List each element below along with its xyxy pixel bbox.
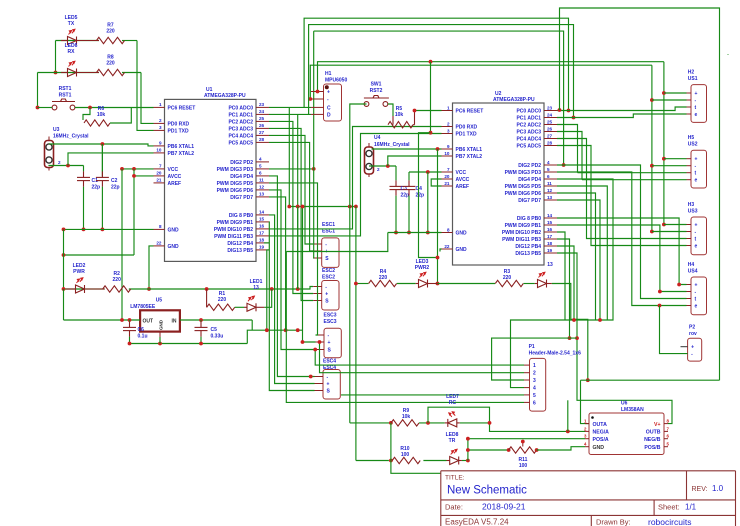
wire plus branch H3 xyxy=(664,224,687,226)
svg-text:DIG 8 PB0: DIG 8 PB0 xyxy=(517,216,541,222)
wire SW1 to R5 xyxy=(388,104,393,116)
wire U5 OUT rail xyxy=(64,319,141,321)
svg-text:23: 23 xyxy=(259,102,265,107)
junction xyxy=(301,340,305,344)
wire rail LED2 xyxy=(64,288,105,290)
wire plus bus vertical xyxy=(663,62,665,225)
svg-text:2: 2 xyxy=(447,121,450,126)
svg-text:+: + xyxy=(327,90,330,96)
wire U1 pin23 row to H1 C xyxy=(269,106,311,108)
wire LED3 to R3 xyxy=(438,283,496,285)
title block xyxy=(441,471,736,526)
junction xyxy=(308,97,312,101)
svg-text:+: + xyxy=(695,223,698,229)
svg-text:4: 4 xyxy=(259,157,262,162)
wire U2 pin28 to H3 e xyxy=(557,146,687,246)
svg-text:DIG12 PB4: DIG12 PB4 xyxy=(227,241,253,247)
wire H5 t xyxy=(578,172,687,174)
wire RST1 to U1 pin1 xyxy=(75,107,154,109)
wire U2 pin24 to H2 e xyxy=(557,114,687,118)
connector H5 US2 xyxy=(691,150,707,188)
connector H3 US3 xyxy=(691,217,707,255)
svg-text:17: 17 xyxy=(259,231,265,236)
svg-text:US2: US2 xyxy=(688,142,698,148)
svg-text:PWM DIG10 PB2: PWM DIG10 PB2 xyxy=(214,227,253,233)
svg-text:PWM DIG3 PD3: PWM DIG3 PD3 xyxy=(505,170,542,176)
svg-text:PD1 TXD: PD1 TXD xyxy=(168,128,190,134)
junction xyxy=(82,228,86,232)
svg-text:AVCC: AVCC xyxy=(456,177,470,183)
svg-text:ESC1: ESC1 xyxy=(322,222,335,228)
svg-text:RST1: RST1 xyxy=(59,93,72,99)
svg-text:Sheet:: Sheet: xyxy=(658,503,680,512)
junction xyxy=(436,282,440,286)
R11 top stub xyxy=(522,442,524,447)
wire minus branch xyxy=(652,165,687,167)
wire U1 pin15 to ESC4 S xyxy=(269,222,315,391)
svg-text:14: 14 xyxy=(259,210,265,215)
svg-text:AVCC: AVCC xyxy=(168,174,182,180)
svg-text:ESC3: ESC3 xyxy=(324,313,337,319)
svg-text:DIG12 PB4: DIG12 PB4 xyxy=(515,244,541,250)
svg-text:Date:: Date: xyxy=(445,503,463,512)
wire to U6 OUTA xyxy=(581,380,590,423)
connector P2 xyxy=(688,338,702,361)
svg-text:PWM DIG9 PB1: PWM DIG9 PB1 xyxy=(505,223,542,229)
svg-text:PC5 ADC5: PC5 ADC5 xyxy=(228,140,253,146)
wire crystal pin2 net xyxy=(49,165,84,168)
svg-text:PWR2: PWR2 xyxy=(415,265,430,271)
wire minus branch H3 xyxy=(652,231,687,233)
wire minus branch xyxy=(652,99,687,101)
junction xyxy=(650,230,654,234)
wire R3 to LED4 xyxy=(524,283,535,285)
svg-text:US1: US1 xyxy=(688,76,698,82)
svg-text:PD0 RXD: PD0 RXD xyxy=(168,121,190,127)
junction xyxy=(677,283,681,287)
svg-text:21: 21 xyxy=(156,178,162,183)
svg-text:H5: H5 xyxy=(688,135,695,141)
wire U2 pin19 to U6 V+ xyxy=(557,253,672,424)
svg-text:22p: 22p xyxy=(111,185,120,191)
wire R6 left lead xyxy=(83,108,90,121)
svg-text:e: e xyxy=(695,178,698,184)
svg-text:28: 28 xyxy=(547,140,553,145)
svg-text:MPU6050: MPU6050 xyxy=(325,78,347,84)
junction xyxy=(394,231,398,235)
svg-text:LM7805EE: LM7805EE xyxy=(130,304,156,310)
svg-text:OUTA: OUTA xyxy=(593,422,608,428)
resistor R3 xyxy=(495,280,523,286)
R5 left lead xyxy=(392,116,394,125)
svg-text:14: 14 xyxy=(547,213,553,218)
svg-text:3: 3 xyxy=(447,128,450,133)
svg-text:6: 6 xyxy=(533,400,536,406)
svg-text:PC3 ADC3: PC3 ADC3 xyxy=(228,126,253,132)
svg-text:PC6 RESET: PC6 RESET xyxy=(168,105,196,111)
junction xyxy=(354,205,358,209)
svg-text:6: 6 xyxy=(259,171,262,176)
wire to R10 xyxy=(356,460,389,462)
pushbutton SW1 xyxy=(364,96,389,107)
junction xyxy=(650,98,654,102)
junction xyxy=(598,318,602,322)
svg-text:DIG7 PD7: DIG7 PD7 xyxy=(518,198,541,204)
svg-text:1/1: 1/1 xyxy=(685,503,697,512)
junction xyxy=(407,231,411,235)
P2 plus stub xyxy=(681,346,688,348)
wire R4 to LED3 xyxy=(397,283,416,285)
svg-text:220: 220 xyxy=(106,29,115,35)
wire U1 pin18 stub xyxy=(264,242,269,244)
svg-text:PC4 ADC4: PC4 ADC4 xyxy=(516,137,541,143)
svg-text:PC6 RESET: PC6 RESET xyxy=(456,109,484,115)
junction xyxy=(650,164,654,168)
svg-text:OUT: OUT xyxy=(143,319,154,325)
svg-text:4: 4 xyxy=(547,160,550,165)
svg-text:26: 26 xyxy=(259,123,265,128)
wire H5 e xyxy=(582,179,687,181)
svg-text:2018-09-21: 2018-09-21 xyxy=(482,502,526,512)
voltage regulator U5 LM7805 xyxy=(140,310,180,331)
wire long vertical to R10 xyxy=(355,207,357,461)
junction xyxy=(426,421,430,425)
junction xyxy=(429,131,433,135)
svg-text:U5: U5 xyxy=(156,298,163,304)
svg-text:3: 3 xyxy=(533,378,536,384)
svg-text:7: 7 xyxy=(159,164,162,169)
junction xyxy=(313,348,317,352)
resistor R4 xyxy=(369,280,397,286)
junction xyxy=(128,318,132,322)
wire crystal pin2 net xyxy=(369,165,396,167)
svg-text:16MHz_Crystal: 16MHz_Crystal xyxy=(53,134,89,140)
junction xyxy=(562,163,566,167)
svg-text:18: 18 xyxy=(259,238,265,243)
wire LED7 bypass to U6 NEG/A xyxy=(428,407,585,431)
wire outer loop bottom xyxy=(581,379,720,381)
wire to U2 pin10 xyxy=(388,156,442,166)
wire U1 pin26 to ESC2 S xyxy=(269,128,313,300)
wire U2 pin22 xyxy=(440,249,442,252)
svg-text:PB7 XTAL2: PB7 XTAL2 xyxy=(168,151,195,157)
wire U1 pin17 to U2 pin3 xyxy=(269,134,442,236)
junction xyxy=(62,228,66,232)
wire reset row xyxy=(289,206,356,208)
capacitor C3 xyxy=(395,166,397,180)
svg-text:9: 9 xyxy=(159,141,162,146)
wire branch to ESC3 plus xyxy=(303,207,316,343)
svg-text:11: 11 xyxy=(259,178,264,183)
svg-text:27: 27 xyxy=(547,133,553,138)
junction xyxy=(426,231,430,235)
wire U2 pin14 to H4 plus xyxy=(557,218,687,285)
svg-text:8: 8 xyxy=(159,224,162,229)
junction xyxy=(466,437,470,441)
wire U1 pin28 to ESC1 plus xyxy=(269,142,313,251)
wire third top line xyxy=(314,31,564,165)
svg-text:12: 12 xyxy=(259,185,265,190)
svg-text:19: 19 xyxy=(259,245,265,250)
wire R8 to corner xyxy=(122,72,141,74)
junction xyxy=(567,109,571,113)
svg-text:DIG4 PD4: DIG4 PD4 xyxy=(230,174,253,180)
junction xyxy=(535,448,539,452)
wire ESC4 S to P1 pin5 xyxy=(341,394,524,396)
junction xyxy=(199,342,203,346)
junction xyxy=(62,253,66,257)
svg-text:e: e xyxy=(695,112,698,118)
svg-text:P2: P2 xyxy=(689,325,695,331)
svg-text:US3: US3 xyxy=(688,209,698,215)
svg-text:H2: H2 xyxy=(688,70,695,76)
wire to P1 pin1 xyxy=(315,350,524,366)
svg-text:Header-Male-2.54_1x6: Header-Male-2.54_1x6 xyxy=(529,351,581,357)
wire VCC to U1 pin7 xyxy=(122,168,154,170)
crystal U4 xyxy=(365,147,374,174)
wire R10 to LED8 xyxy=(423,460,446,462)
junction xyxy=(572,318,576,322)
svg-text:U6: U6 xyxy=(621,401,628,407)
svg-text:+: + xyxy=(325,292,328,298)
junction xyxy=(132,174,136,178)
svg-text:RX: RX xyxy=(68,49,76,55)
svg-text:rov: rov xyxy=(689,331,697,337)
junction xyxy=(658,290,662,294)
wire H1 C top line xyxy=(304,18,568,110)
wire to P1 pin2 xyxy=(320,342,525,373)
svg-text:SW1: SW1 xyxy=(371,82,382,88)
R1 left lead xyxy=(206,289,208,307)
svg-text:22p: 22p xyxy=(92,185,101,191)
capacitor C1 xyxy=(83,166,85,172)
wire H1 D top line xyxy=(309,25,574,118)
junction xyxy=(128,342,132,346)
wire to U2 pin1 xyxy=(415,110,442,112)
wire U1 pin24 row to H1 D xyxy=(269,113,311,115)
svg-text:PWM DIG6 PD6: PWM DIG6 PD6 xyxy=(505,191,542,197)
junction xyxy=(301,205,305,209)
svg-text:13: 13 xyxy=(253,285,259,291)
resistor R5 xyxy=(388,122,413,128)
svg-text:C: C xyxy=(327,105,331,111)
junction xyxy=(54,71,58,75)
wire crystal pin1 to U2 pin9 xyxy=(372,148,442,150)
svg-text:+: + xyxy=(695,157,698,163)
crystal U3 xyxy=(45,141,54,168)
svg-text:26: 26 xyxy=(547,126,553,131)
svg-text:PC5 ADC5: PC5 ADC5 xyxy=(516,144,541,150)
svg-text:PB7 XTAL2: PB7 XTAL2 xyxy=(456,154,483,160)
svg-text:19: 19 xyxy=(547,248,553,253)
svg-text:TX: TX xyxy=(68,21,75,27)
wire U2 pin4 to H4 t xyxy=(557,165,687,299)
svg-text:25: 25 xyxy=(259,116,265,121)
svg-text:PC0 ADC0: PC0 ADC0 xyxy=(516,109,541,115)
junction xyxy=(521,440,525,444)
wire U2 pin16 down xyxy=(557,232,565,320)
svg-text:GND: GND xyxy=(159,319,164,330)
svg-text:28: 28 xyxy=(259,137,265,142)
svg-text:220: 220 xyxy=(503,275,512,281)
junction xyxy=(662,223,666,227)
wire LED8 cathode xyxy=(462,460,468,462)
svg-text:220: 220 xyxy=(113,277,122,283)
wire LED2 rail down xyxy=(63,289,65,320)
wire TX net to U1 pin3 xyxy=(137,41,154,131)
wire U1 pin6 to ESC4 minus xyxy=(269,176,315,377)
svg-text:22p: 22p xyxy=(416,193,425,199)
wire VCC vertical to U5 OUT rail xyxy=(121,169,123,320)
svg-text:PC2 ADC2: PC2 ADC2 xyxy=(228,119,253,125)
wire down to LED3 node xyxy=(437,149,439,284)
svg-text:H3: H3 xyxy=(688,202,695,208)
svg-text:ESC2: ESC2 xyxy=(322,275,335,281)
junction xyxy=(62,287,66,291)
svg-text:+: + xyxy=(695,91,698,97)
junction xyxy=(568,336,572,340)
wire branch xyxy=(567,400,569,431)
svg-text:D: D xyxy=(327,112,331,118)
wire to P2 minus xyxy=(660,306,688,354)
svg-text:13: 13 xyxy=(547,262,553,268)
svg-text:220: 220 xyxy=(379,275,388,281)
LED LED3 xyxy=(416,280,438,288)
svg-text:PC1 ADC1: PC1 ADC1 xyxy=(516,116,541,122)
svg-text:VCC: VCC xyxy=(168,167,179,173)
svg-text:EasyEDA V5.7.24: EasyEDA V5.7.24 xyxy=(445,518,509,526)
svg-text:22: 22 xyxy=(156,241,162,246)
wire U2 pin13 down xyxy=(557,200,600,320)
svg-text:100: 100 xyxy=(519,463,528,469)
wire U1 pin5 xyxy=(269,168,314,170)
wire U2 pin5 to H4 e xyxy=(557,172,687,306)
svg-text:DIG13 PB5: DIG13 PB5 xyxy=(515,251,541,257)
svg-text:e: e xyxy=(695,304,698,310)
wire pin24 branch to ESC2 minus rail xyxy=(297,114,299,289)
svg-text:REV:: REV: xyxy=(692,486,708,493)
wire LED4 net to lower right xyxy=(552,284,588,381)
resistor R8 xyxy=(97,69,125,75)
junction xyxy=(101,142,105,146)
svg-text:POS/B: POS/B xyxy=(644,445,660,451)
svg-text:-: - xyxy=(727,52,729,58)
op-amp U6 LM358AN xyxy=(589,413,664,455)
junction xyxy=(101,228,105,232)
svg-text:RC: RC xyxy=(449,400,457,406)
wire to U6 POS/A xyxy=(468,439,585,461)
junction xyxy=(199,318,203,322)
svg-text:10k: 10k xyxy=(395,112,404,118)
svg-text:3: 3 xyxy=(159,125,162,130)
resistor R7 xyxy=(97,37,125,43)
LED LED1 xyxy=(244,303,264,311)
svg-text:GND: GND xyxy=(168,227,180,233)
svg-text:GND: GND xyxy=(593,445,605,451)
svg-text:H1: H1 xyxy=(325,71,332,77)
wire down to RST1 xyxy=(37,73,39,108)
wire U2 pin18 down xyxy=(557,246,574,320)
svg-text:PB6 XTAL1: PB6 XTAL1 xyxy=(456,147,483,153)
wire GND rail left xyxy=(286,233,388,252)
svg-text:5: 5 xyxy=(533,393,536,399)
svg-text:US4: US4 xyxy=(688,269,698,275)
svg-text:PD0 RXD: PD0 RXD xyxy=(456,125,478,131)
svg-text:2: 2 xyxy=(377,167,380,172)
svg-text:+: + xyxy=(328,340,331,346)
svg-text:DIG 8 PB0: DIG 8 PB0 xyxy=(229,213,253,219)
junction xyxy=(296,287,300,291)
svg-text:GND: GND xyxy=(456,247,468,253)
wire plus bus xyxy=(318,62,664,92)
microcontroller U2 ATMEGA328P-PU xyxy=(453,103,545,265)
svg-text:9: 9 xyxy=(447,144,450,149)
wire rail jog up xyxy=(247,330,302,343)
junction xyxy=(88,106,92,110)
wire U1 pin12 to ESC3 S xyxy=(269,190,316,350)
svg-text:GND: GND xyxy=(456,231,468,237)
svg-text:1: 1 xyxy=(159,102,162,107)
svg-text:2: 2 xyxy=(533,371,536,377)
junction xyxy=(389,459,393,463)
wire LED7 anode xyxy=(460,422,490,424)
junction xyxy=(309,375,313,379)
wire R1 to LED1 xyxy=(235,306,244,308)
resistor R6 xyxy=(84,120,110,126)
wire to R11 xyxy=(468,449,509,451)
wire crystal pin1 net to U1 pin9 xyxy=(49,144,154,146)
wire U2 pin15 to H4 minus xyxy=(557,225,687,292)
connector P1 xyxy=(530,358,546,411)
wire U1 pin27 to ESC1 minus xyxy=(269,135,313,244)
junction xyxy=(318,340,322,344)
wire R7 to corner xyxy=(122,40,137,42)
svg-text:+: + xyxy=(691,345,694,351)
svg-text:C6: C6 xyxy=(138,327,145,333)
wire plus branch xyxy=(664,92,687,94)
svg-text:DIG13 PB5: DIG13 PB5 xyxy=(227,248,253,254)
resistor R9 xyxy=(391,420,419,426)
junction xyxy=(386,164,390,168)
svg-text:ESC4: ESC4 xyxy=(323,365,336,371)
H1 pin1 marker xyxy=(325,85,329,89)
wire R11 to U6 GND xyxy=(537,447,585,450)
svg-text:13: 13 xyxy=(259,192,265,197)
svg-text:21: 21 xyxy=(444,181,450,186)
svg-text:Drawn By:: Drawn By: xyxy=(596,518,631,526)
connector ESC3 xyxy=(324,328,341,358)
svg-text:100: 100 xyxy=(401,452,410,458)
svg-text:POS/A: POS/A xyxy=(593,437,609,443)
wire R6 right lead up xyxy=(110,108,131,124)
connector ESC2 xyxy=(322,281,339,311)
wire U2 pin12 down xyxy=(557,193,596,320)
capacitor C4 xyxy=(408,172,410,180)
svg-text:PWM DIG11 PB3: PWM DIG11 PB3 xyxy=(214,234,253,240)
wire LED5 anode net xyxy=(56,40,100,42)
svg-text:27: 27 xyxy=(259,130,265,135)
svg-text:IN: IN xyxy=(172,319,177,325)
svg-text:ATMEGA328P-PU: ATMEGA328P-PU xyxy=(493,97,535,103)
junction xyxy=(284,328,288,332)
junction xyxy=(466,459,470,463)
junction xyxy=(132,167,136,171)
wire minus bus xyxy=(310,65,652,99)
wire plus branch xyxy=(664,158,687,160)
wire IN rail corner down xyxy=(251,320,253,330)
wire LED6 anode net xyxy=(38,72,100,74)
wire LED1 cathode up xyxy=(264,289,271,307)
